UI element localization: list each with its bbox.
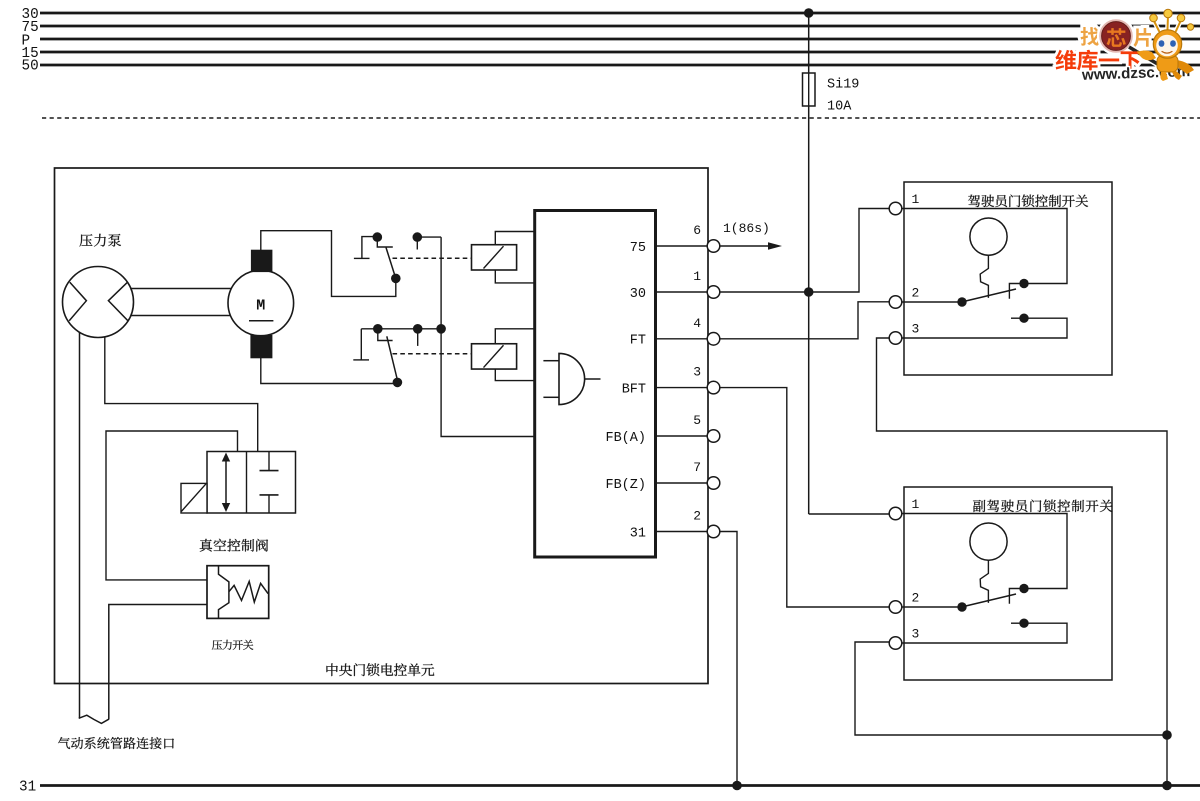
svg-text:Si19: Si19 [827,78,859,93]
svg-text:7: 7 [693,460,701,475]
svg-text:50: 50 [22,59,39,75]
svg-text:3: 3 [912,627,920,642]
svg-text:1: 1 [912,497,920,512]
svg-text:75: 75 [630,241,646,256]
svg-text:2: 2 [912,591,920,606]
svg-text:BFT: BFT [622,382,646,397]
svg-text:1: 1 [693,269,701,284]
svg-text:5: 5 [693,413,701,428]
svg-text:2: 2 [912,286,920,301]
svg-text:FB(Z): FB(Z) [605,478,646,493]
svg-text:1(86s): 1(86s) [723,221,770,236]
svg-text:M: M [256,298,265,315]
svg-text:1: 1 [912,192,920,207]
svg-text:30: 30 [630,287,646,302]
svg-text:31: 31 [19,780,36,796]
svg-text:FB(A): FB(A) [605,431,646,446]
svg-text:6: 6 [693,223,701,238]
svg-text:2: 2 [693,509,701,524]
svg-text:FT: FT [630,334,646,349]
svg-text:4: 4 [693,316,701,331]
svg-text:3: 3 [693,365,701,380]
svg-text:31: 31 [630,526,646,541]
svg-text:3: 3 [912,322,920,337]
svg-text:10A: 10A [827,100,852,115]
